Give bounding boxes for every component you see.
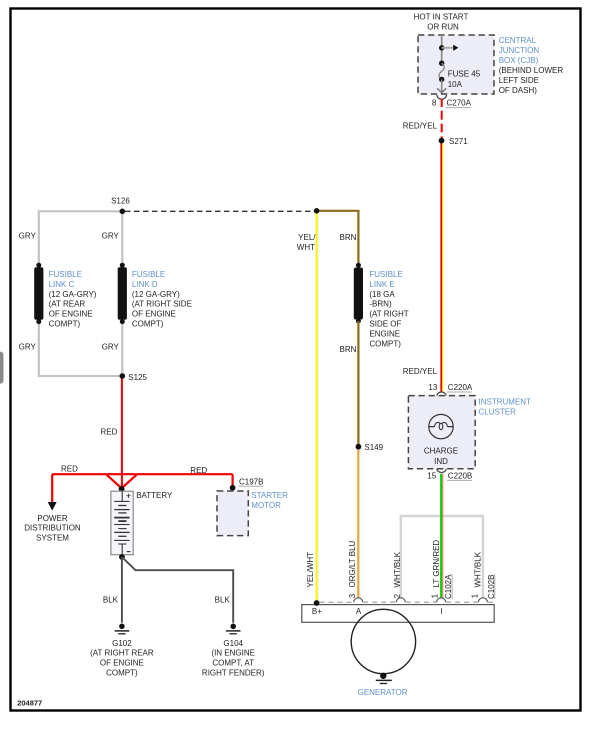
- svg-text:WHT/BLK: WHT/BLK: [393, 551, 402, 587]
- fusible link E: [354, 263, 363, 324]
- svg-text:RED/YEL: RED/YEL: [403, 367, 438, 376]
- generator body circle: [351, 609, 415, 673]
- svg-text:RED: RED: [190, 466, 207, 475]
- svg-text:BOX (CJB): BOX (CJB): [499, 56, 539, 65]
- label B+: [312, 607, 322, 616]
- starter motor box: [217, 491, 248, 536]
- svg-text:1: 1: [471, 593, 480, 598]
- label FUSIBLE LINK E: [369, 270, 408, 348]
- label C220B: [447, 471, 472, 480]
- svg-text:GRY: GRY: [102, 343, 120, 352]
- svg-text:B+: B+: [312, 607, 322, 616]
- label FUSE 45 10A: [448, 69, 481, 89]
- wire CJB internal feed: [441, 35, 443, 63]
- indicator lamp CHARGE IND symbol: [429, 414, 453, 438]
- label C197B: [239, 477, 264, 486]
- label C102B rotated: [487, 574, 496, 599]
- connector C220A bump: [437, 392, 446, 396]
- svg-text:(12 GA-GRY): (12 GA-GRY): [132, 290, 180, 299]
- label HOT IN START OR RUN: [414, 13, 469, 32]
- wire GRY middle branch: [121, 211, 123, 376]
- svg-text:OF ENGINE: OF ENGINE: [100, 659, 144, 668]
- battery symbol: [111, 491, 133, 555]
- svg-text:OF ENGINE: OF ENGINE: [49, 310, 93, 319]
- svg-text:(AT RIGHT REAR: (AT RIGHT REAR: [90, 649, 154, 658]
- svg-text:FUSIBLE: FUSIBLE: [49, 270, 82, 279]
- label STARTER MOTOR: [251, 491, 288, 510]
- instrument cluster box: [408, 396, 475, 469]
- svg-text:COMPT): COMPT): [369, 339, 401, 348]
- wire BRN from splice: [317, 211, 359, 265]
- svg-text:BRN: BRN: [340, 345, 357, 354]
- svg-text:(18 GA: (18 GA: [369, 290, 395, 299]
- pin 2 label: [393, 593, 402, 598]
- svg-text:C220A: C220A: [448, 383, 473, 392]
- wire RED/YEL dashed from C270A: [441, 99, 443, 139]
- svg-text:COMPT): COMPT): [106, 669, 138, 678]
- wire BRN lower: [357, 321, 359, 444]
- svg-text:JUNCTION: JUNCTION: [499, 46, 540, 55]
- node S271: [439, 137, 469, 146]
- node battery negative: [119, 554, 125, 560]
- arrow to power distribution system: [48, 474, 57, 510]
- connector C220B bump: [437, 469, 446, 473]
- svg-text:204877: 204877: [17, 698, 42, 707]
- svg-text:LT GRN/RED: LT GRN/RED: [432, 540, 441, 588]
- label BRN upper: [340, 233, 357, 242]
- label ORG/LT BLU rotated: [348, 540, 357, 587]
- node S149: [356, 443, 384, 452]
- ground G104: [226, 624, 241, 634]
- svg-text:(AT RIGHT SIDE: (AT RIGHT SIDE: [132, 300, 192, 309]
- svg-text:OR RUN: OR RUN: [427, 23, 459, 32]
- svg-text:OF DASH): OF DASH): [499, 86, 538, 95]
- svg-text:3: 3: [348, 593, 357, 598]
- wire shield bracket C102 gray: [401, 516, 483, 599]
- node fuse top: [439, 61, 444, 66]
- label BLK right: [215, 595, 231, 604]
- node S125: [120, 373, 148, 382]
- label GRY lower left: [19, 343, 37, 352]
- svg-text:HOT IN START: HOT IN START: [414, 13, 469, 22]
- wire dashed S126 to splice junction: [125, 210, 314, 212]
- svg-text:GENERATOR: GENERATOR: [358, 688, 408, 697]
- wire GRY loop left branch: [39, 211, 123, 376]
- svg-text:G102: G102: [112, 639, 132, 648]
- label GRY upper middle: [102, 232, 120, 241]
- wire ORG/LT BLU: [358, 450, 360, 599]
- wire tap arrow: [442, 45, 459, 51]
- svg-text:(AT RIGHT: (AT RIGHT: [369, 310, 408, 319]
- svg-text:WHT: WHT: [297, 243, 315, 252]
- label GRY upper left: [19, 232, 37, 241]
- label diagram id 204877: [17, 698, 42, 707]
- svg-text:13: 13: [428, 383, 437, 392]
- label G102: [90, 639, 154, 678]
- connector bump C102B: [478, 598, 487, 603]
- label WHT/BLK right rotated: [473, 551, 482, 587]
- svg-text:FUSIBLE: FUSIBLE: [132, 270, 165, 279]
- connector bump A terminal: [354, 598, 363, 603]
- svg-text:COMPT): COMPT): [49, 320, 81, 329]
- svg-text:YEL/: YEL/: [298, 233, 316, 242]
- wire RED/YEL to instrument cluster: [441, 143, 442, 393]
- connector bump pin2: [396, 598, 405, 603]
- svg-text:SYSTEM: SYSTEM: [36, 534, 69, 543]
- node B+ terminal: [314, 600, 320, 606]
- label RED vertical wire: [101, 428, 118, 437]
- svg-text:WHT/BLK: WHT/BLK: [473, 551, 482, 587]
- scrollbar tab artifact: [0, 352, 4, 384]
- label RED/YEL lower: [403, 367, 438, 376]
- fuse F45 element: [439, 63, 444, 79]
- ground generator: [376, 673, 392, 684]
- label CENTRAL JUNCTION BOX (CJB): [499, 36, 564, 95]
- svg-text:COMPT, AT: COMPT, AT: [212, 659, 254, 668]
- svg-text:I: I: [440, 607, 442, 616]
- svg-text:LINK E: LINK E: [369, 280, 394, 289]
- svg-text:LINK C: LINK C: [49, 280, 75, 289]
- wire RED drop to starter: [232, 474, 234, 486]
- svg-text:S125: S125: [128, 373, 147, 382]
- svg-text:S126: S126: [111, 197, 130, 206]
- svg-text:A: A: [356, 607, 362, 616]
- label WHT/BLK left rotated: [393, 551, 402, 587]
- label YEL/WHT rotated: [306, 552, 315, 588]
- wire BLK branch to G104: [122, 557, 233, 623]
- label INSTRUMENT CLUSTER: [479, 397, 532, 416]
- label LT GRN/RED rotated: [432, 540, 441, 588]
- fusible link C: [34, 263, 43, 324]
- svg-text:8: 8: [432, 99, 437, 108]
- label RED left: [61, 464, 78, 473]
- svg-text:BLK: BLK: [215, 595, 231, 604]
- svg-text:1: 1: [430, 593, 439, 598]
- svg-text:LEFT SIDE: LEFT SIDE: [499, 76, 539, 85]
- svg-text:MOTOR: MOTOR: [251, 501, 281, 510]
- node splice junction: [314, 208, 320, 214]
- pin 13 label: [428, 383, 437, 392]
- svg-text:GRY: GRY: [19, 232, 37, 241]
- svg-text:STARTER: STARTER: [251, 491, 288, 500]
- svg-text:C270A: C270A: [447, 99, 472, 108]
- fusible link D: [118, 263, 127, 324]
- label BATTERY: [136, 491, 173, 500]
- svg-text:C220B: C220B: [448, 471, 472, 480]
- node fuse bottom: [439, 77, 444, 82]
- svg-text:ORG/LT BLU: ORG/LT BLU: [348, 540, 357, 587]
- svg-text:S149: S149: [364, 443, 383, 452]
- svg-text:G104: G104: [223, 639, 243, 648]
- node C197B: [230, 485, 236, 491]
- svg-text:(AT REAR: (AT REAR: [49, 300, 86, 309]
- wire BLK to G102: [121, 557, 123, 623]
- svg-text:ENGINE: ENGINE: [369, 329, 400, 338]
- pin 1 label left: [430, 593, 439, 598]
- svg-text:FUSIBLE: FUSIBLE: [369, 270, 402, 279]
- svg-text:RED/YEL: RED/YEL: [403, 121, 438, 130]
- svg-text:(BEHIND LOWER: (BEHIND LOWER: [499, 66, 564, 75]
- label GENERATOR: [358, 688, 408, 697]
- svg-text:(IN ENGINE: (IN ENGINE: [211, 649, 255, 658]
- label YEL/WHT upper: [297, 233, 316, 252]
- svg-text:SIDE OF: SIDE OF: [369, 320, 401, 329]
- pin 8 label: [432, 99, 437, 108]
- svg-text:YEL/WHT: YEL/WHT: [306, 552, 315, 588]
- pin 15 label: [427, 471, 436, 480]
- generator terminal box: [302, 605, 494, 623]
- svg-text:GRY: GRY: [102, 232, 120, 241]
- central junction box U-CJB: [418, 35, 494, 94]
- svg-text:INSTRUMENT: INSTRUMENT: [479, 397, 532, 406]
- wire RED from S125 to battery: [121, 376, 123, 489]
- node S126: [111, 197, 130, 214]
- svg-text:LINK D: LINK D: [132, 280, 158, 289]
- svg-text:OF ENGINE: OF ENGINE: [132, 310, 176, 319]
- svg-text:CENTRAL: CENTRAL: [499, 36, 537, 45]
- pin 1 label right: [471, 593, 480, 598]
- svg-text:15: 15: [427, 471, 436, 480]
- svg-text:RED: RED: [61, 464, 78, 473]
- ground G102: [115, 624, 130, 634]
- svg-text:(12 GA-GRY): (12 GA-GRY): [49, 290, 97, 299]
- svg-text:RIGHT FENDER): RIGHT FENDER): [202, 669, 265, 678]
- label BRN lower: [340, 345, 357, 354]
- svg-text:S271: S271: [449, 137, 468, 146]
- label BLK left: [103, 595, 119, 604]
- label C220A: [447, 383, 473, 392]
- svg-text:COMPT): COMPT): [132, 320, 164, 329]
- label C102A rotated: [444, 574, 453, 599]
- svg-text:CHARGE: CHARGE: [424, 446, 458, 455]
- wire fuse output with chevron arrowhead: [437, 79, 446, 92]
- label FUSIBLE LINK D: [132, 270, 192, 329]
- svg-text:DISTRIBUTION: DISTRIBUTION: [24, 524, 81, 533]
- node battery positive junction: [119, 486, 125, 492]
- svg-text:BRN: BRN: [340, 233, 357, 242]
- connector C102 dashed line: [320, 601, 494, 603]
- svg-text:BLK: BLK: [103, 595, 119, 604]
- svg-text:CLUSTER: CLUSTER: [479, 407, 517, 416]
- label GRY lower middle: [102, 343, 120, 352]
- svg-text:FUSE 45: FUSE 45: [448, 69, 481, 78]
- pin 3 label: [348, 593, 357, 598]
- label I: [440, 607, 442, 616]
- label C270A: [446, 99, 472, 108]
- svg-text:BATTERY: BATTERY: [136, 491, 173, 500]
- svg-text:RED: RED: [101, 428, 118, 437]
- svg-text:IND: IND: [434, 457, 448, 466]
- connector bump I terminal: [437, 598, 446, 603]
- connector C270A bump: [437, 95, 447, 99]
- svg-text:+: +: [126, 491, 132, 502]
- wire LT GRN/RED: [441, 474, 443, 599]
- label RED/YEL upper: [403, 121, 438, 130]
- label CHARGE IND: [424, 446, 458, 466]
- label FUSIBLE LINK C: [49, 270, 97, 329]
- svg-text:GRY: GRY: [19, 343, 37, 352]
- node CJB tap: [439, 45, 444, 50]
- svg-text:C197B: C197B: [239, 477, 263, 486]
- svg-text:10A: 10A: [448, 80, 463, 89]
- wire YEL/WHT vertical: [317, 211, 319, 602]
- label POWER DISTRIBUTION SYSTEM: [24, 514, 81, 543]
- label A: [356, 607, 362, 616]
- label G104: [202, 639, 265, 678]
- wire RED horizontal distribution: [52, 474, 232, 488]
- svg-text:-BRN): -BRN): [369, 300, 392, 309]
- svg-text:POWER: POWER: [37, 514, 67, 523]
- label RED right: [190, 466, 207, 475]
